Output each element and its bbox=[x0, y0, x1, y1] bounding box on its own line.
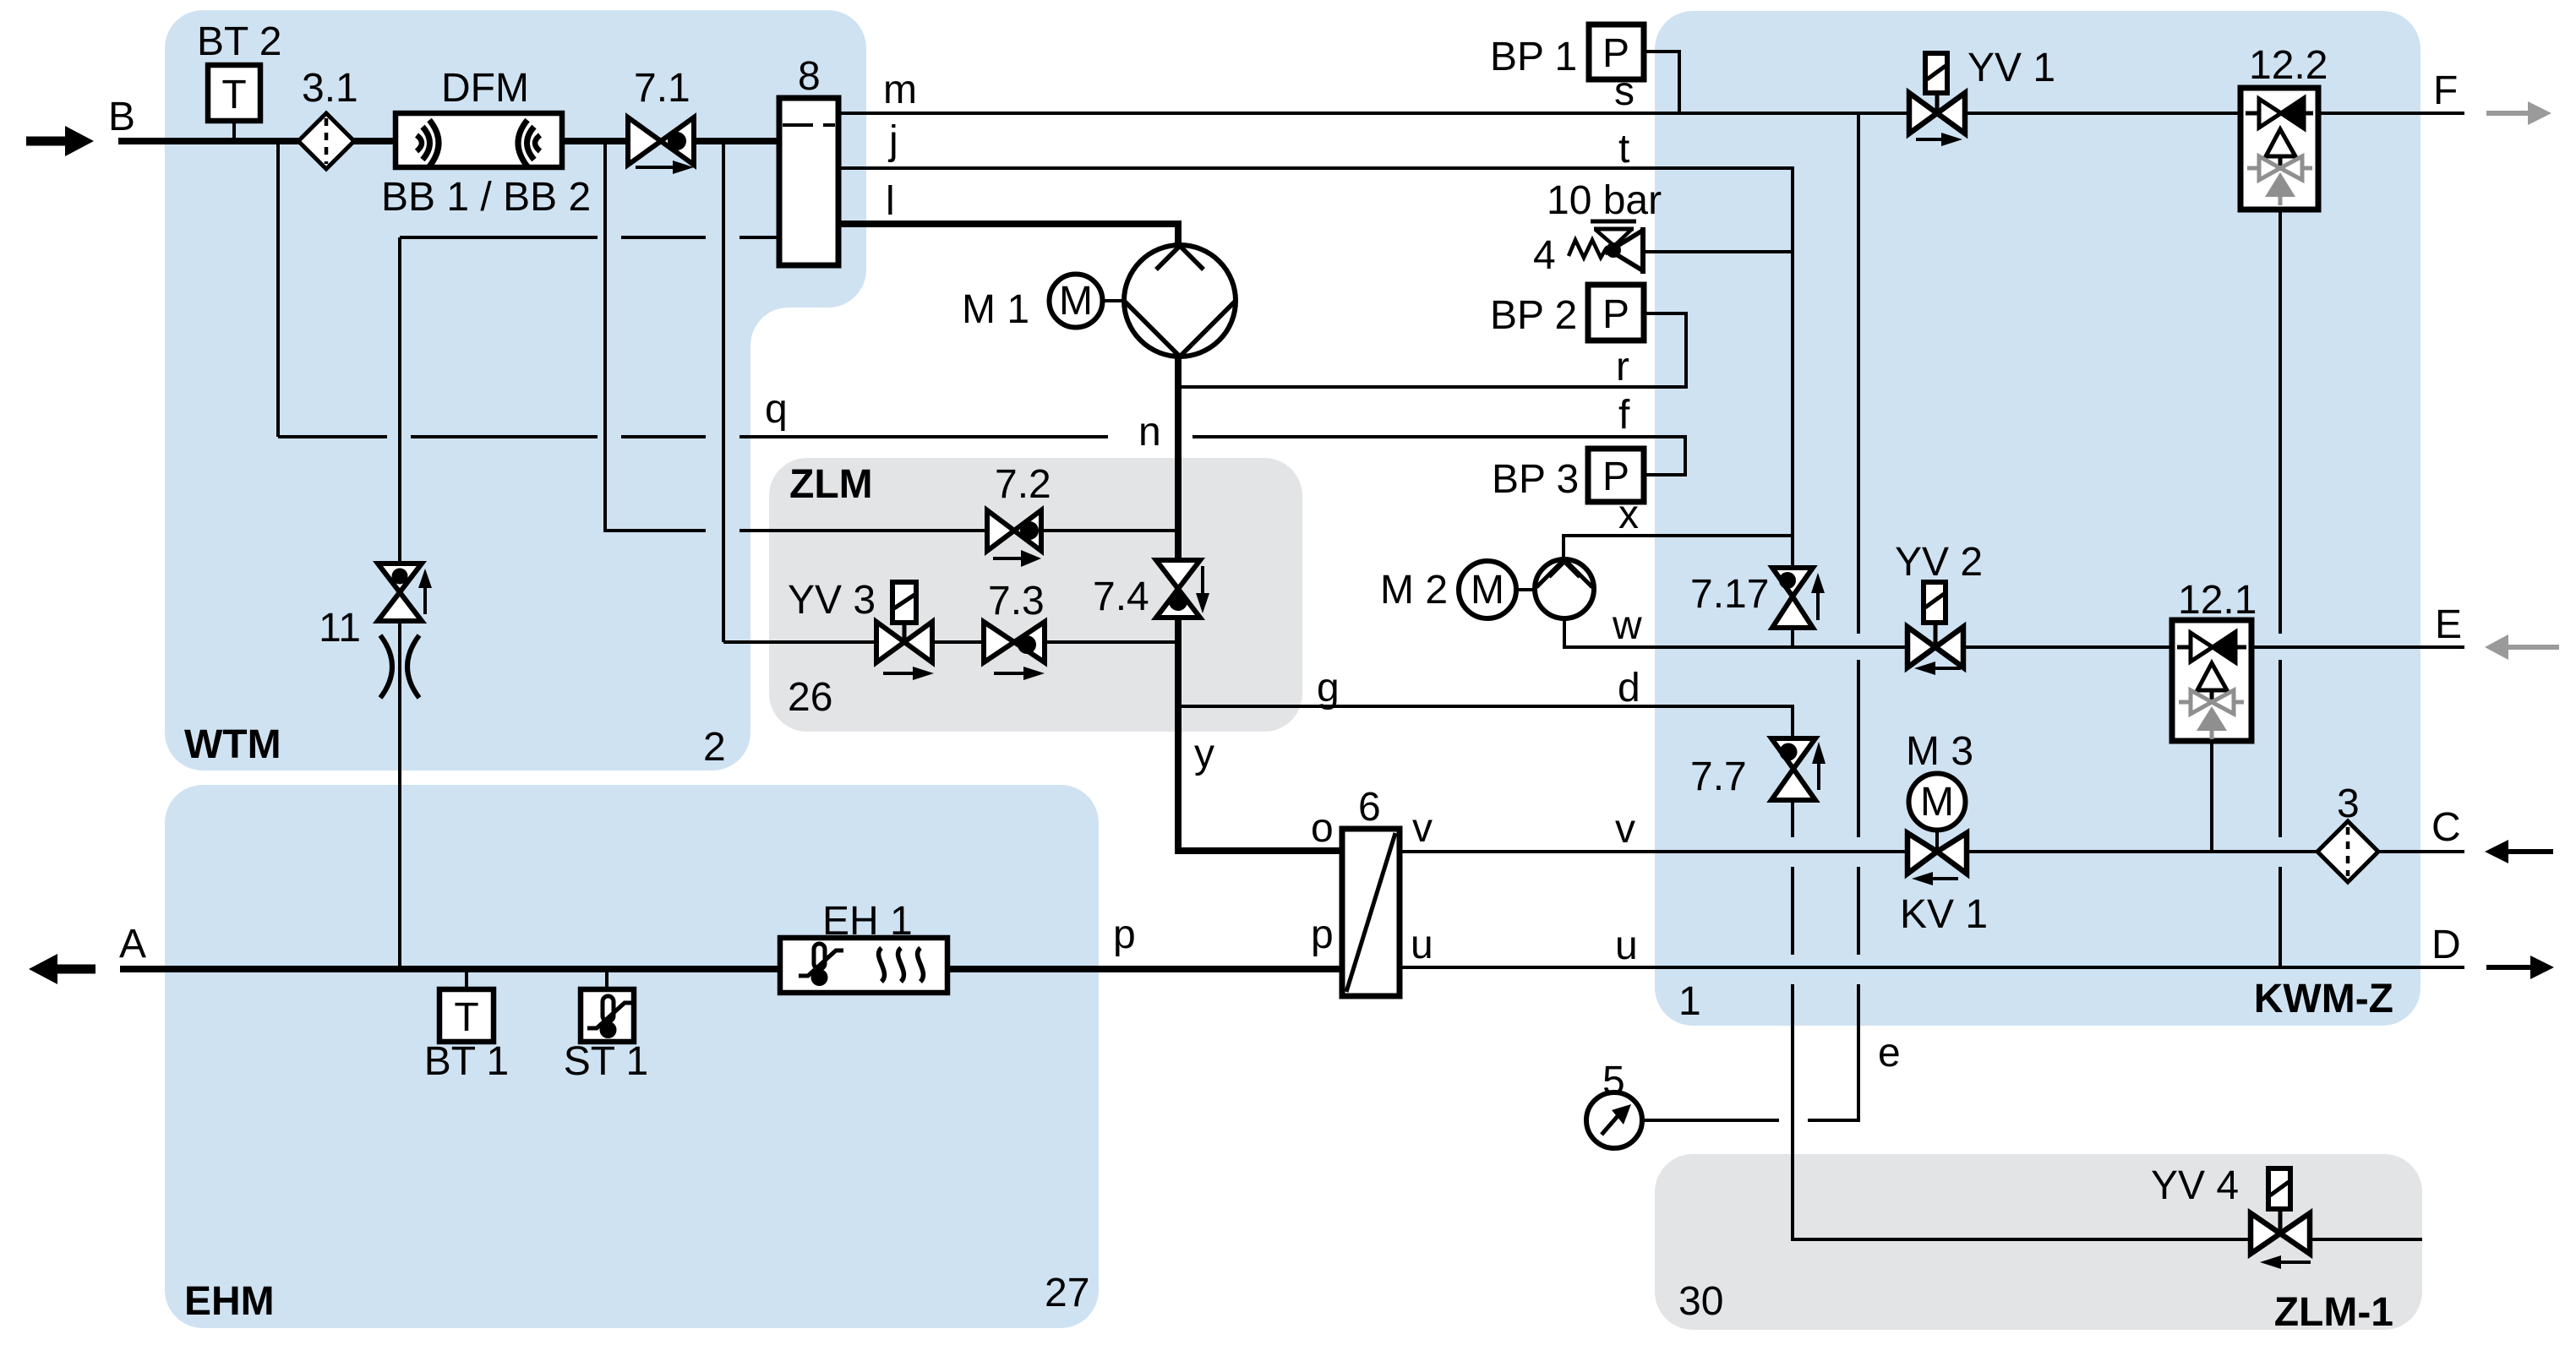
filter 3 bbox=[2317, 781, 2378, 882]
node u label at KWM-Z bbox=[1615, 923, 1638, 968]
svg-text:E: E bbox=[2435, 602, 2462, 647]
node l label bbox=[886, 179, 895, 224]
svg-text:d: d bbox=[1618, 666, 1640, 711]
wire BT2 stem bbox=[232, 121, 236, 141]
svg-text:C: C bbox=[2431, 805, 2461, 850]
valve YV2 with solenoid bbox=[1895, 540, 1983, 675]
motor M1 bbox=[962, 275, 1124, 333]
svg-text:ST 1: ST 1 bbox=[564, 1039, 649, 1084]
svg-text:o: o bbox=[1311, 806, 1334, 851]
svg-text:EHM: EHM bbox=[184, 1279, 275, 1324]
svg-text:8: 8 bbox=[798, 54, 821, 99]
svg-text:1: 1 bbox=[1678, 979, 1701, 1024]
arrow E inlet gray bbox=[2485, 634, 2559, 660]
svg-text:YV 3: YV 3 bbox=[788, 578, 876, 623]
svg-text:f: f bbox=[1618, 393, 1630, 438]
label 2 bbox=[703, 725, 726, 770]
sensor BP3 bbox=[1492, 449, 1644, 502]
svg-text:p: p bbox=[1311, 912, 1334, 957]
region WTM (blue module 2) bbox=[165, 10, 866, 771]
wire d-g line to 7.7 bbox=[1182, 706, 1793, 738]
svg-text:6: 6 bbox=[1358, 785, 1381, 830]
wire 7.17 to w stem bbox=[1791, 628, 1794, 647]
node n label bbox=[1138, 410, 1161, 455]
svg-text:YV 1: YV 1 bbox=[1967, 46, 2055, 90]
svg-text:e: e bbox=[1878, 1031, 1901, 1075]
valve KV1 bbox=[1900, 833, 1988, 937]
node o label bbox=[1311, 806, 1334, 851]
svg-text:v: v bbox=[1412, 806, 1433, 851]
valve YV3 with solenoid bbox=[788, 578, 934, 680]
wire ST1 stem bbox=[605, 969, 609, 989]
svg-text:P: P bbox=[1602, 292, 1629, 337]
pump M2 bbox=[1535, 559, 1594, 618]
sensor BP1 bbox=[1490, 25, 1644, 79]
svg-text:27: 27 bbox=[1045, 1271, 1089, 1315]
svg-text:BP 1: BP 1 bbox=[1490, 35, 1577, 79]
arrow F outlet gray bbox=[2486, 101, 2551, 125]
wire B branch down at x329 to q bbox=[278, 141, 387, 437]
svg-text:t: t bbox=[1618, 127, 1629, 172]
wire vertical x473 to valve 11 and A line bbox=[398, 237, 401, 969]
node j label bbox=[887, 118, 898, 163]
wire v-C line bbox=[1400, 850, 2464, 853]
svg-text:g: g bbox=[1317, 666, 1340, 711]
svg-text:l: l bbox=[886, 179, 895, 224]
thick line l-n-o from 8 to HX bbox=[838, 224, 1342, 851]
node C label bbox=[2431, 805, 2461, 850]
svg-text:u: u bbox=[1615, 923, 1638, 968]
node A label bbox=[119, 922, 146, 967]
manifold 8 bbox=[779, 54, 838, 265]
svg-text:BP 2: BP 2 bbox=[1490, 293, 1577, 338]
wire M3 stem bbox=[1935, 830, 1939, 852]
svg-text:ZLM-1: ZLM-1 bbox=[2274, 1290, 2393, 1335]
svg-text:YV 2: YV 2 bbox=[1895, 540, 1983, 585]
label 30 bbox=[1678, 1279, 1723, 1324]
node q label bbox=[765, 387, 788, 432]
arrow A outlet bbox=[29, 954, 96, 984]
sensor BP2 bbox=[1490, 285, 1644, 340]
svg-text:26: 26 bbox=[788, 675, 832, 720]
wire B branch x856 to YV3 line bbox=[723, 141, 1175, 642]
wire x line from pump M2 to x2121 bbox=[1564, 536, 1793, 560]
svg-text:5: 5 bbox=[1602, 1059, 1625, 1103]
valve 7.7 vertical bbox=[1690, 738, 1826, 800]
valve YV4 with solenoid bbox=[2151, 1163, 2311, 1269]
region KWM-Z (blue module 1) bbox=[1655, 11, 2420, 1026]
svg-text:s: s bbox=[1614, 69, 1635, 114]
sensor ST1 bbox=[564, 989, 649, 1084]
svg-text:7.17: 7.17 bbox=[1690, 572, 1769, 617]
svg-text:m: m bbox=[883, 68, 917, 112]
svg-text:3.1: 3.1 bbox=[302, 66, 358, 111]
svg-text:DFM: DFM bbox=[441, 66, 529, 111]
svg-text:T: T bbox=[221, 73, 246, 117]
svg-text:7.4: 7.4 bbox=[1093, 574, 1149, 619]
node r label bbox=[1616, 345, 1629, 389]
label KWM-Z bbox=[2254, 977, 2393, 1021]
valve YV1 with solenoid bbox=[1909, 46, 2055, 146]
wire 7.7 bottom through v u to YV4 line bbox=[1793, 800, 2422, 1239]
node s label bbox=[1614, 69, 1635, 114]
svg-text:M: M bbox=[1059, 279, 1093, 324]
wire BT1 stem bbox=[465, 969, 468, 989]
valve 11 bbox=[319, 564, 432, 651]
wire vertical x2199 from s to gauge 5 bbox=[1642, 113, 1858, 1120]
wire 8 left side line y281 bbox=[400, 236, 779, 239]
node y label bbox=[1194, 732, 1214, 776]
svg-text:M: M bbox=[1920, 780, 1954, 825]
svg-text:M 1: M 1 bbox=[962, 287, 1029, 332]
label 1 bbox=[1678, 979, 1701, 1024]
motor M3 bbox=[1906, 729, 1973, 830]
relief valve 4 (10 bar) bbox=[1533, 178, 1662, 278]
wire u-D line bbox=[1400, 966, 2464, 969]
svg-text:w: w bbox=[1612, 603, 1642, 648]
arrow D outlet bbox=[2486, 956, 2554, 979]
node w label bbox=[1612, 603, 1642, 648]
thick line A-p bbox=[120, 966, 1342, 972]
node E label bbox=[2435, 602, 2462, 647]
svg-text:7.3: 7.3 bbox=[988, 579, 1045, 623]
node p label at HX bbox=[1311, 912, 1334, 957]
node f label bbox=[1618, 393, 1630, 438]
svg-text:r: r bbox=[1616, 345, 1629, 389]
valve 7.4 vertical bbox=[1093, 560, 1209, 619]
svg-text:12.2: 12.2 bbox=[2249, 43, 2328, 88]
heat exchanger 6 bbox=[1342, 785, 1400, 996]
svg-text:7.1: 7.1 bbox=[634, 66, 690, 111]
wire j-t line with corner down at x2121 bbox=[838, 168, 1793, 568]
node v label at KWM-Z bbox=[1615, 807, 1635, 852]
wire B branch x716 to 7.2 line bbox=[605, 141, 1175, 531]
node t label bbox=[1618, 127, 1629, 172]
wire w-E line bbox=[1564, 618, 2464, 647]
node x label bbox=[1618, 493, 1639, 537]
svg-text:BP 3: BP 3 bbox=[1492, 457, 1579, 502]
label 26 bbox=[788, 675, 832, 720]
label WTM bbox=[184, 722, 281, 767]
svg-text:ZLM: ZLM bbox=[789, 462, 873, 507]
gauge 5 bbox=[1586, 1059, 1642, 1148]
filter 3.1 bbox=[298, 66, 358, 169]
svg-text:v: v bbox=[1615, 807, 1635, 852]
node u label at HX bbox=[1411, 923, 1433, 967]
wire q-n-f line segments bbox=[411, 437, 1685, 475]
svg-text:p: p bbox=[1113, 912, 1136, 957]
svg-text:j: j bbox=[887, 118, 898, 163]
wire 12.1 down to C line bbox=[2210, 741, 2213, 852]
region EHM (blue module 27) bbox=[165, 785, 1099, 1328]
svg-text:KWM-Z: KWM-Z bbox=[2254, 977, 2393, 1021]
wire 12.2 down to D line bbox=[2279, 210, 2282, 967]
svg-text:7.2: 7.2 bbox=[995, 462, 1051, 507]
svg-text:YV 4: YV 4 bbox=[2151, 1163, 2239, 1208]
flow meter DFM BB1/BB2 bbox=[381, 66, 591, 220]
sensor BT1 bbox=[424, 989, 510, 1084]
node m label bbox=[883, 68, 917, 112]
svg-text:BB 1 / BB 2: BB 1 / BB 2 bbox=[381, 175, 591, 220]
label ZLM bbox=[789, 462, 873, 507]
node d label bbox=[1618, 666, 1640, 711]
svg-text:WTM: WTM bbox=[184, 722, 281, 767]
svg-text:y: y bbox=[1194, 732, 1214, 776]
svg-text:A: A bbox=[119, 922, 146, 967]
wire m-s-F main top line bbox=[838, 112, 2464, 115]
arrow B inlet bbox=[26, 126, 94, 156]
svg-text:D: D bbox=[2431, 923, 2461, 967]
node D label bbox=[2431, 923, 2461, 967]
svg-text:7.7: 7.7 bbox=[1690, 754, 1747, 799]
orifice symbol below valve 11 bbox=[380, 635, 419, 698]
label ZLM-1 bbox=[2274, 1290, 2393, 1335]
svg-text:10 bar: 10 bar bbox=[1547, 178, 1662, 223]
svg-text:KV 1: KV 1 bbox=[1900, 892, 1988, 937]
svg-text:3: 3 bbox=[2337, 781, 2360, 826]
thick line B inlet bbox=[118, 138, 779, 144]
wire BP1 to s junction bbox=[1644, 52, 1679, 113]
motor M2 bbox=[1380, 561, 1535, 618]
node p label right of EH1 bbox=[1113, 912, 1136, 957]
node B label bbox=[108, 95, 135, 139]
svg-text:n: n bbox=[1138, 410, 1161, 455]
svg-text:12.1: 12.1 bbox=[2178, 578, 2257, 623]
heater EH1 bbox=[780, 899, 947, 993]
svg-text:M 3: M 3 bbox=[1906, 729, 1973, 774]
svg-text:BT 2: BT 2 bbox=[197, 19, 282, 64]
svg-text:2: 2 bbox=[703, 725, 726, 770]
wire relief valve 4 output bbox=[1643, 250, 1793, 253]
valve 7.17 vertical bbox=[1690, 568, 1825, 628]
svg-text:30: 30 bbox=[1678, 1279, 1723, 1324]
valve 7.2 bbox=[987, 462, 1051, 567]
svg-text:x: x bbox=[1618, 493, 1639, 537]
node F label bbox=[2433, 68, 2458, 113]
pump M1 bbox=[1124, 245, 1236, 357]
node v label at HX bbox=[1412, 806, 1433, 851]
check valve unit 12.1 bbox=[2172, 578, 2257, 741]
region ZLM (gray module 26) bbox=[769, 458, 1302, 732]
svg-text:B: B bbox=[108, 95, 135, 139]
node g label bbox=[1317, 666, 1340, 711]
arrow C inlet bbox=[2485, 840, 2553, 863]
node e label bbox=[1878, 1031, 1901, 1075]
svg-text:q: q bbox=[765, 387, 788, 432]
check valve unit 12.2 bbox=[2240, 43, 2328, 210]
svg-text:4: 4 bbox=[1533, 233, 1556, 278]
valve 7.3 bbox=[984, 579, 1045, 680]
valve 7.1 bbox=[628, 66, 694, 174]
svg-text:M: M bbox=[1471, 568, 1504, 613]
svg-text:EH 1: EH 1 bbox=[822, 899, 913, 944]
svg-text:u: u bbox=[1411, 923, 1433, 967]
svg-text:F: F bbox=[2433, 68, 2458, 113]
svg-text:11: 11 bbox=[319, 606, 361, 651]
svg-text:M 2: M 2 bbox=[1380, 568, 1448, 613]
label EHM bbox=[184, 1279, 275, 1324]
svg-text:BT 1: BT 1 bbox=[424, 1039, 510, 1084]
wire r line to BP2 bbox=[1182, 313, 1686, 387]
sensor BT2 bbox=[197, 19, 282, 121]
label 27 bbox=[1045, 1271, 1089, 1315]
svg-text:T: T bbox=[454, 995, 478, 1040]
region ZLM-1 (gray module 30) bbox=[1655, 1154, 2422, 1330]
